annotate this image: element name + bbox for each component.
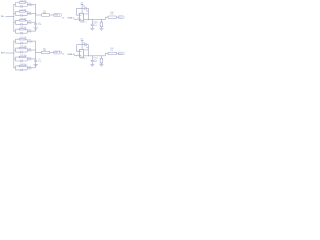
wire branch 2 top	[15, 10, 27, 12]
wire right bus lower	[35, 25, 37, 31]
wire branch 4 out	[27, 30, 36, 32]
wire right bus upper	[35, 4, 37, 23]
op-amp U1L body	[80, 13, 84, 21]
wire branch 1 bottom	[15, 42, 27, 44]
capacitor C3R	[21, 60, 22, 62]
svg-text:10n: 10n	[38, 24, 41, 26]
junction feedback	[87, 54, 90, 57]
junction resistor leg	[100, 18, 103, 21]
resistor R10R series	[108, 52, 117, 54]
svg-text:+9V: +9V	[80, 39, 84, 41]
wire branch 2 out	[27, 49, 36, 51]
svg-text:R3 30k: R3 30k	[20, 18, 26, 20]
junction cap leg	[91, 18, 94, 21]
junction branch 1 left	[12, 40, 15, 43]
capacitor C7L feedback	[85, 7, 86, 10]
wire input	[6, 52, 14, 54]
resistor R4R	[19, 65, 25, 67]
op-amp plus mark	[80, 19, 81, 20]
junction branch 3 left	[12, 57, 15, 60]
wire branch 4 split left	[14, 66, 16, 70]
junction output tap	[34, 51, 37, 54]
ground	[34, 28, 39, 30]
wire branch 2 bottom	[15, 14, 27, 16]
svg-text:3n3: 3n3	[28, 32, 31, 34]
wire branch 3 out	[27, 21, 36, 23]
junction feedback	[87, 18, 90, 21]
junction input-bus	[12, 52, 15, 55]
svg-text:U1A: U1A	[84, 12, 88, 15]
ground shunt cap	[90, 28, 94, 30]
wire branch 2 stub	[14, 12, 16, 14]
wire feedback left leg	[77, 8, 80, 15]
capacitor C3L	[21, 23, 22, 25]
wire branch 4 stub	[14, 67, 16, 69]
wire branch 2 out	[27, 12, 36, 14]
wire to series resistor	[36, 14, 42, 16]
resistor R3L	[19, 20, 25, 22]
junction branch 3 left	[12, 21, 15, 24]
wire to output label	[117, 52, 119, 54]
junction input-bus	[12, 15, 15, 18]
wire to shunt capacitor	[91, 56, 93, 60]
svg-text:U1A: U1A	[84, 49, 88, 52]
wire branch 1 top	[15, 38, 27, 40]
resistor R3R	[19, 56, 25, 58]
wire op-amp output	[84, 55, 106, 57]
svg-text:33n: 33n	[28, 14, 31, 16]
svg-text:RIAA L: RIAA L	[68, 17, 75, 20]
wire to output label	[50, 52, 54, 54]
wire to series resistor	[36, 52, 42, 54]
resistor R4L	[19, 28, 25, 30]
svg-text:IN R: IN R	[1, 53, 6, 55]
wire left bus	[13, 41, 15, 68]
ground	[34, 65, 39, 67]
wire branch 2 split left	[14, 11, 16, 15]
global label OUT_L box	[54, 14, 62, 17]
op-amp minus mark	[80, 50, 81, 52]
resistor R9L shunt	[100, 22, 103, 27]
capacitor C1R	[21, 42, 22, 44]
svg-text:OUT R: OUT R	[54, 52, 61, 54]
wire branch 3 split left	[14, 57, 16, 61]
op-amp minus mark	[80, 14, 81, 16]
wire branch 4 split right	[26, 66, 28, 70]
wire branch 4 bottom	[15, 69, 27, 71]
svg-text:R1 75k: R1 75k	[20, 0, 26, 2]
wire branch 2 bottom	[15, 51, 27, 53]
wire branch 1 split right	[26, 3, 28, 7]
wire branch 3 bottom	[15, 23, 27, 25]
junction cap leg	[91, 54, 94, 57]
wire branch 4 out	[27, 67, 36, 69]
wire branch 3 split right	[26, 57, 28, 61]
capacitor C6L shunt	[91, 24, 94, 25]
global label OUTL box	[118, 16, 124, 19]
wire branch 4 top	[15, 28, 27, 30]
junction branch 4 left	[12, 30, 15, 33]
resistor R10L series	[108, 16, 117, 18]
junction output tap	[34, 14, 37, 17]
wire branch 4 stub	[14, 30, 16, 32]
wire branch 3 top	[15, 56, 27, 58]
ground shunt resistor	[99, 65, 103, 67]
wire input to op-amp	[74, 54, 80, 56]
svg-text:33n: 33n	[28, 51, 31, 53]
svg-text:IN L: IN L	[1, 16, 6, 18]
svg-text:R3 30k: R3 30k	[20, 55, 26, 57]
wire branch 2 split right	[26, 11, 28, 15]
power flag +9V	[81, 3, 84, 5]
wire power to op-amp	[81, 41, 83, 50]
svg-text:10n: 10n	[28, 23, 31, 25]
svg-text:+9V: +9V	[80, 2, 84, 4]
svg-text:1: 1	[86, 22, 87, 24]
wire feedback left leg	[77, 45, 80, 52]
wire branch 4 split right	[26, 29, 28, 33]
wire input	[6, 15, 14, 17]
capacitor C2R	[21, 51, 22, 53]
wire branch 3 out	[27, 58, 36, 60]
junction branch 4 left	[12, 66, 15, 69]
wire branch 4 bottom	[15, 32, 27, 34]
svg-text:C7: C7	[83, 6, 85, 8]
capacitor C5L	[34, 24, 37, 25]
junction resistor leg	[100, 54, 103, 57]
svg-text:EQ: EQ	[62, 54, 65, 56]
wire branch 1 bottom	[15, 6, 27, 8]
global label OUTR box	[118, 52, 124, 55]
svg-text:C7: C7	[83, 42, 85, 44]
wire op-amp output	[84, 19, 106, 21]
wire feedback right leg	[87, 8, 89, 19]
op-amp plus mark	[80, 55, 81, 56]
wire left bus	[13, 4, 15, 31]
svg-text:100n: 100n	[28, 5, 32, 7]
wire branch 2 split right	[26, 48, 28, 52]
wire branch 3 stub	[14, 21, 16, 23]
global label OUT_R box	[54, 51, 62, 54]
wire shunt cap to ground	[91, 26, 93, 29]
ground shunt resistor	[99, 28, 103, 30]
wire feedback right leg	[87, 45, 89, 56]
ground shunt cap	[90, 65, 94, 67]
wire to shunt resistor	[100, 56, 102, 59]
wire branch 3 bottom	[15, 60, 27, 62]
junction branch 2 left	[12, 12, 15, 15]
wire branch 2 stub	[14, 49, 16, 51]
wire to shunt capacitor	[91, 20, 93, 24]
wire to output label	[50, 14, 54, 16]
svg-text:TL072: TL072	[80, 58, 85, 60]
wire branch 1 split right	[26, 39, 28, 43]
wire shunt resistor to ground	[100, 27, 102, 29]
wire branch 1 stub	[14, 3, 16, 5]
resistor R5L	[41, 14, 50, 17]
wire step up	[105, 53, 108, 55]
resistor R9R shunt	[100, 58, 103, 63]
capacitor C1L	[21, 5, 22, 7]
svg-text:R2 43k: R2 43k	[20, 9, 26, 11]
svg-text:950: 950	[43, 50, 46, 52]
svg-text:75k: 75k	[110, 50, 113, 52]
svg-text:R1 75k: R1 75k	[20, 37, 26, 39]
wire to output label	[117, 16, 119, 18]
wire step up	[105, 17, 108, 19]
resistor R1R	[19, 38, 25, 40]
wire power to op-amp	[81, 4, 83, 13]
wire branch 2 split left	[14, 48, 16, 52]
capacitor C4R	[21, 69, 22, 71]
wire branch 4 split left	[14, 29, 16, 33]
svg-text:OUT: OUT	[119, 17, 124, 19]
wire shunt resistor to ground	[100, 63, 102, 65]
svg-text:R4 15k: R4 15k	[20, 64, 26, 66]
svg-text:10n: 10n	[38, 61, 41, 63]
svg-text:1: 1	[86, 58, 87, 60]
svg-text:OUT: OUT	[119, 53, 124, 55]
wire branch 1 out	[27, 40, 36, 42]
svg-text:TL072: TL072	[80, 22, 85, 24]
resistor R1L	[19, 2, 25, 4]
wire branch 3 split left	[14, 20, 16, 24]
wire right bus lower	[35, 62, 37, 68]
capacitor C6R shunt	[91, 60, 94, 61]
wire branch 3 split right	[26, 20, 28, 24]
junction branch 1 left	[12, 3, 15, 6]
wire feedback top	[77, 44, 89, 46]
wire branch 1 top	[15, 2, 27, 4]
svg-text:10n: 10n	[28, 60, 31, 62]
junction branch 2 left	[12, 49, 15, 52]
svg-text:EQ: EQ	[62, 17, 65, 19]
wire branch 3 top	[15, 19, 27, 21]
capacitor C4L	[21, 32, 22, 34]
wire feedback top	[77, 7, 89, 9]
wire branch 3 stub	[14, 58, 16, 60]
wire branch 2 top	[15, 47, 27, 49]
capacitor C5R	[34, 60, 37, 61]
power flag +9V	[81, 40, 84, 42]
resistor R2R	[19, 47, 25, 49]
svg-text:4n7: 4n7	[94, 25, 97, 27]
svg-text:3n3: 3n3	[28, 68, 31, 70]
op-amp U1R body	[80, 50, 84, 58]
wire branch 1 split left	[14, 3, 16, 7]
svg-text:100n: 100n	[28, 42, 32, 44]
svg-text:RIAA R: RIAA R	[68, 53, 75, 56]
svg-text:75k: 75k	[110, 14, 113, 16]
resistor R5R	[41, 51, 50, 54]
svg-text:OUT L: OUT L	[54, 15, 61, 17]
wire right bus upper	[35, 41, 37, 60]
wire branch 1 split left	[14, 39, 16, 43]
svg-text:R2 43k: R2 43k	[20, 46, 26, 48]
svg-text:950: 950	[43, 13, 46, 15]
wire branch 1 out	[27, 3, 36, 5]
wire to shunt resistor	[100, 20, 102, 23]
resistor R2L	[19, 11, 25, 13]
wire branch 4 top	[15, 65, 27, 67]
svg-text:4n7: 4n7	[94, 61, 97, 63]
wire branch 1 stub	[14, 40, 16, 42]
wire input to op-amp	[74, 18, 80, 20]
capacitor C2L	[21, 14, 22, 16]
capacitor C7R feedback	[85, 43, 86, 46]
wire shunt cap to ground	[91, 62, 93, 65]
svg-text:R4 15k: R4 15k	[20, 27, 26, 29]
